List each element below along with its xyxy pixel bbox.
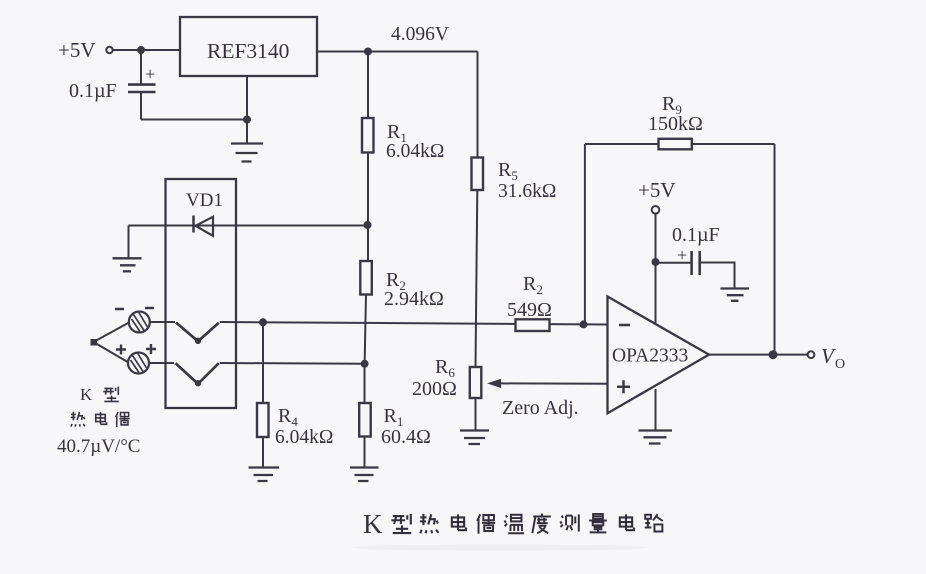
wire feedback right leg: [774, 144, 776, 355]
node Vo label: [821, 344, 845, 372]
svg-text:6.04kΩ: 6.04kΩ: [275, 427, 333, 448]
svg-text:549Ω: 549Ω: [507, 299, 552, 321]
svg-text:2.94kΩ: 2.94kΩ: [384, 288, 444, 310]
thermocouple left node: [91, 339, 98, 346]
terminal circle minus: [129, 312, 150, 333]
svg-text:VD1: VD1: [186, 190, 223, 211]
ground (R4): [262, 437, 264, 468]
svg-text:0.1µF: 0.1µF: [672, 224, 720, 246]
svg-text:Zero Adj.: Zero Adj.: [502, 397, 579, 419]
resistor R2b 549Ω: [516, 319, 550, 331]
wire feedback left leg: [584, 144, 586, 324]
junction +5V / C2: [653, 259, 659, 265]
terminal Vo: [808, 351, 815, 358]
wire +5V down to op-amp: [655, 214, 657, 324]
svg-text:K: K: [80, 385, 93, 404]
svg-text:+5V: +5V: [58, 38, 96, 62]
ground (REF3140): [231, 144, 263, 162]
node +5V (top-left supply): [58, 38, 96, 62]
resistor R3 31.6kΩ: [472, 158, 484, 191]
svg-text:REF3140: REF3140: [207, 39, 289, 63]
node +5V (op-amp supply): [638, 178, 676, 202]
resistor R4 6.04kΩ: [262, 322, 264, 403]
wire C1 bottom to REF ground net: [141, 119, 247, 121]
thermocouple lead to minus terminal: [94, 323, 130, 343]
wire down to R1: [367, 52, 369, 119]
svg-text:0.1µF: 0.1µF: [69, 80, 117, 102]
svg-text:150kΩ: 150kΩ: [648, 113, 703, 135]
thermocouple junction V (plus): [176, 363, 219, 384]
svg-text:O: O: [835, 357, 845, 372]
wire plus to R2 node: [220, 362, 365, 365]
wire diode VD1 row: [129, 225, 368, 227]
junction R1 top: [365, 49, 371, 55]
wire minus terminal to junction V: [150, 321, 175, 323]
svg-text:200Ω: 200Ω: [412, 378, 457, 400]
svg-text:40.7µV/°C: 40.7µV/°C: [57, 436, 140, 457]
node 4.096V: [391, 24, 449, 45]
svg-text:6.04kΩ: 6.04kΩ: [386, 141, 444, 162]
svg-text:K: K: [363, 509, 383, 539]
wire R3 down through signal to R6: [476, 190, 478, 367]
resistor R1b 60.4Ω: [364, 364, 366, 403]
capacitor C2 0.1µF: [656, 262, 692, 264]
isothermal block box: [166, 179, 237, 408]
thermocouple junction V (minus): [176, 323, 219, 342]
terminal +5V op-amp: [652, 206, 660, 214]
ground (C2): [721, 289, 750, 301]
svg-text:+: +: [677, 245, 687, 265]
resistor R2 2.94kΩ: [360, 261, 372, 295]
ground (R1b): [364, 437, 366, 468]
junction R4: [260, 319, 266, 325]
junction C1/ground net: [244, 117, 250, 123]
wire R1 to diode node: [367, 153, 369, 262]
resistor R9 150kΩ: [659, 139, 692, 150]
ground (R6): [475, 398, 477, 431]
wire R2 to plus node: [365, 295, 366, 365]
faint scan smudge: [350, 545, 650, 551]
terminal +5V: [106, 47, 112, 53]
polarity marks: [115, 308, 154, 309]
resistor R1 6.04kΩ: [362, 118, 374, 153]
op-amp U2 OPA2333: [608, 297, 710, 414]
label K type thermocouple: [57, 385, 140, 457]
junction output / feedback: [770, 351, 777, 358]
junction +5V / C1: [138, 47, 144, 53]
svg-text:+: +: [145, 64, 155, 84]
terminal circle plus: [128, 353, 149, 374]
wire op-amp output: [709, 354, 808, 356]
wire +5V to REF3140: [113, 49, 180, 51]
svg-text:60.4Ω: 60.4Ω: [381, 426, 431, 448]
resistor R6 200Ω potentiometer: [470, 367, 482, 398]
junction diode / R1 / R2: [365, 222, 371, 228]
capacitor C1 0.1µF: [140, 50, 142, 84]
junction plus / R2 / R1b: [362, 361, 368, 367]
main signal wire (minus) to op-amp: [220, 322, 608, 325]
svg-text:+5V: +5V: [638, 178, 676, 202]
wiper arrow to op-amp plus input: [500, 382, 608, 384]
diode VD1: [192, 216, 195, 233]
wire down to R3: [477, 52, 479, 158]
REF3140 ground pin wire: [246, 76, 248, 143]
thermocouple lead to plus terminal: [94, 342, 129, 363]
svg-text:31.6kΩ: 31.6kΩ: [498, 181, 556, 202]
wire REF3140 output 4.096V: [317, 51, 478, 53]
wire feedback top: [585, 143, 775, 145]
caption K type thermocouple temperature measurement circuit: [363, 509, 663, 539]
label Zero Adj: [502, 397, 579, 419]
ground (op-amp): [655, 389, 657, 431]
wire plus terminal to junction V: [149, 362, 174, 364]
IC U1 REF3140: [180, 17, 317, 76]
junction feedback / inverting input: [581, 321, 587, 327]
ground (VD1): [128, 226, 130, 259]
svg-text:V: V: [821, 344, 836, 368]
svg-text:OPA2333: OPA2333: [612, 346, 688, 367]
svg-text:4.096V: 4.096V: [391, 24, 449, 45]
